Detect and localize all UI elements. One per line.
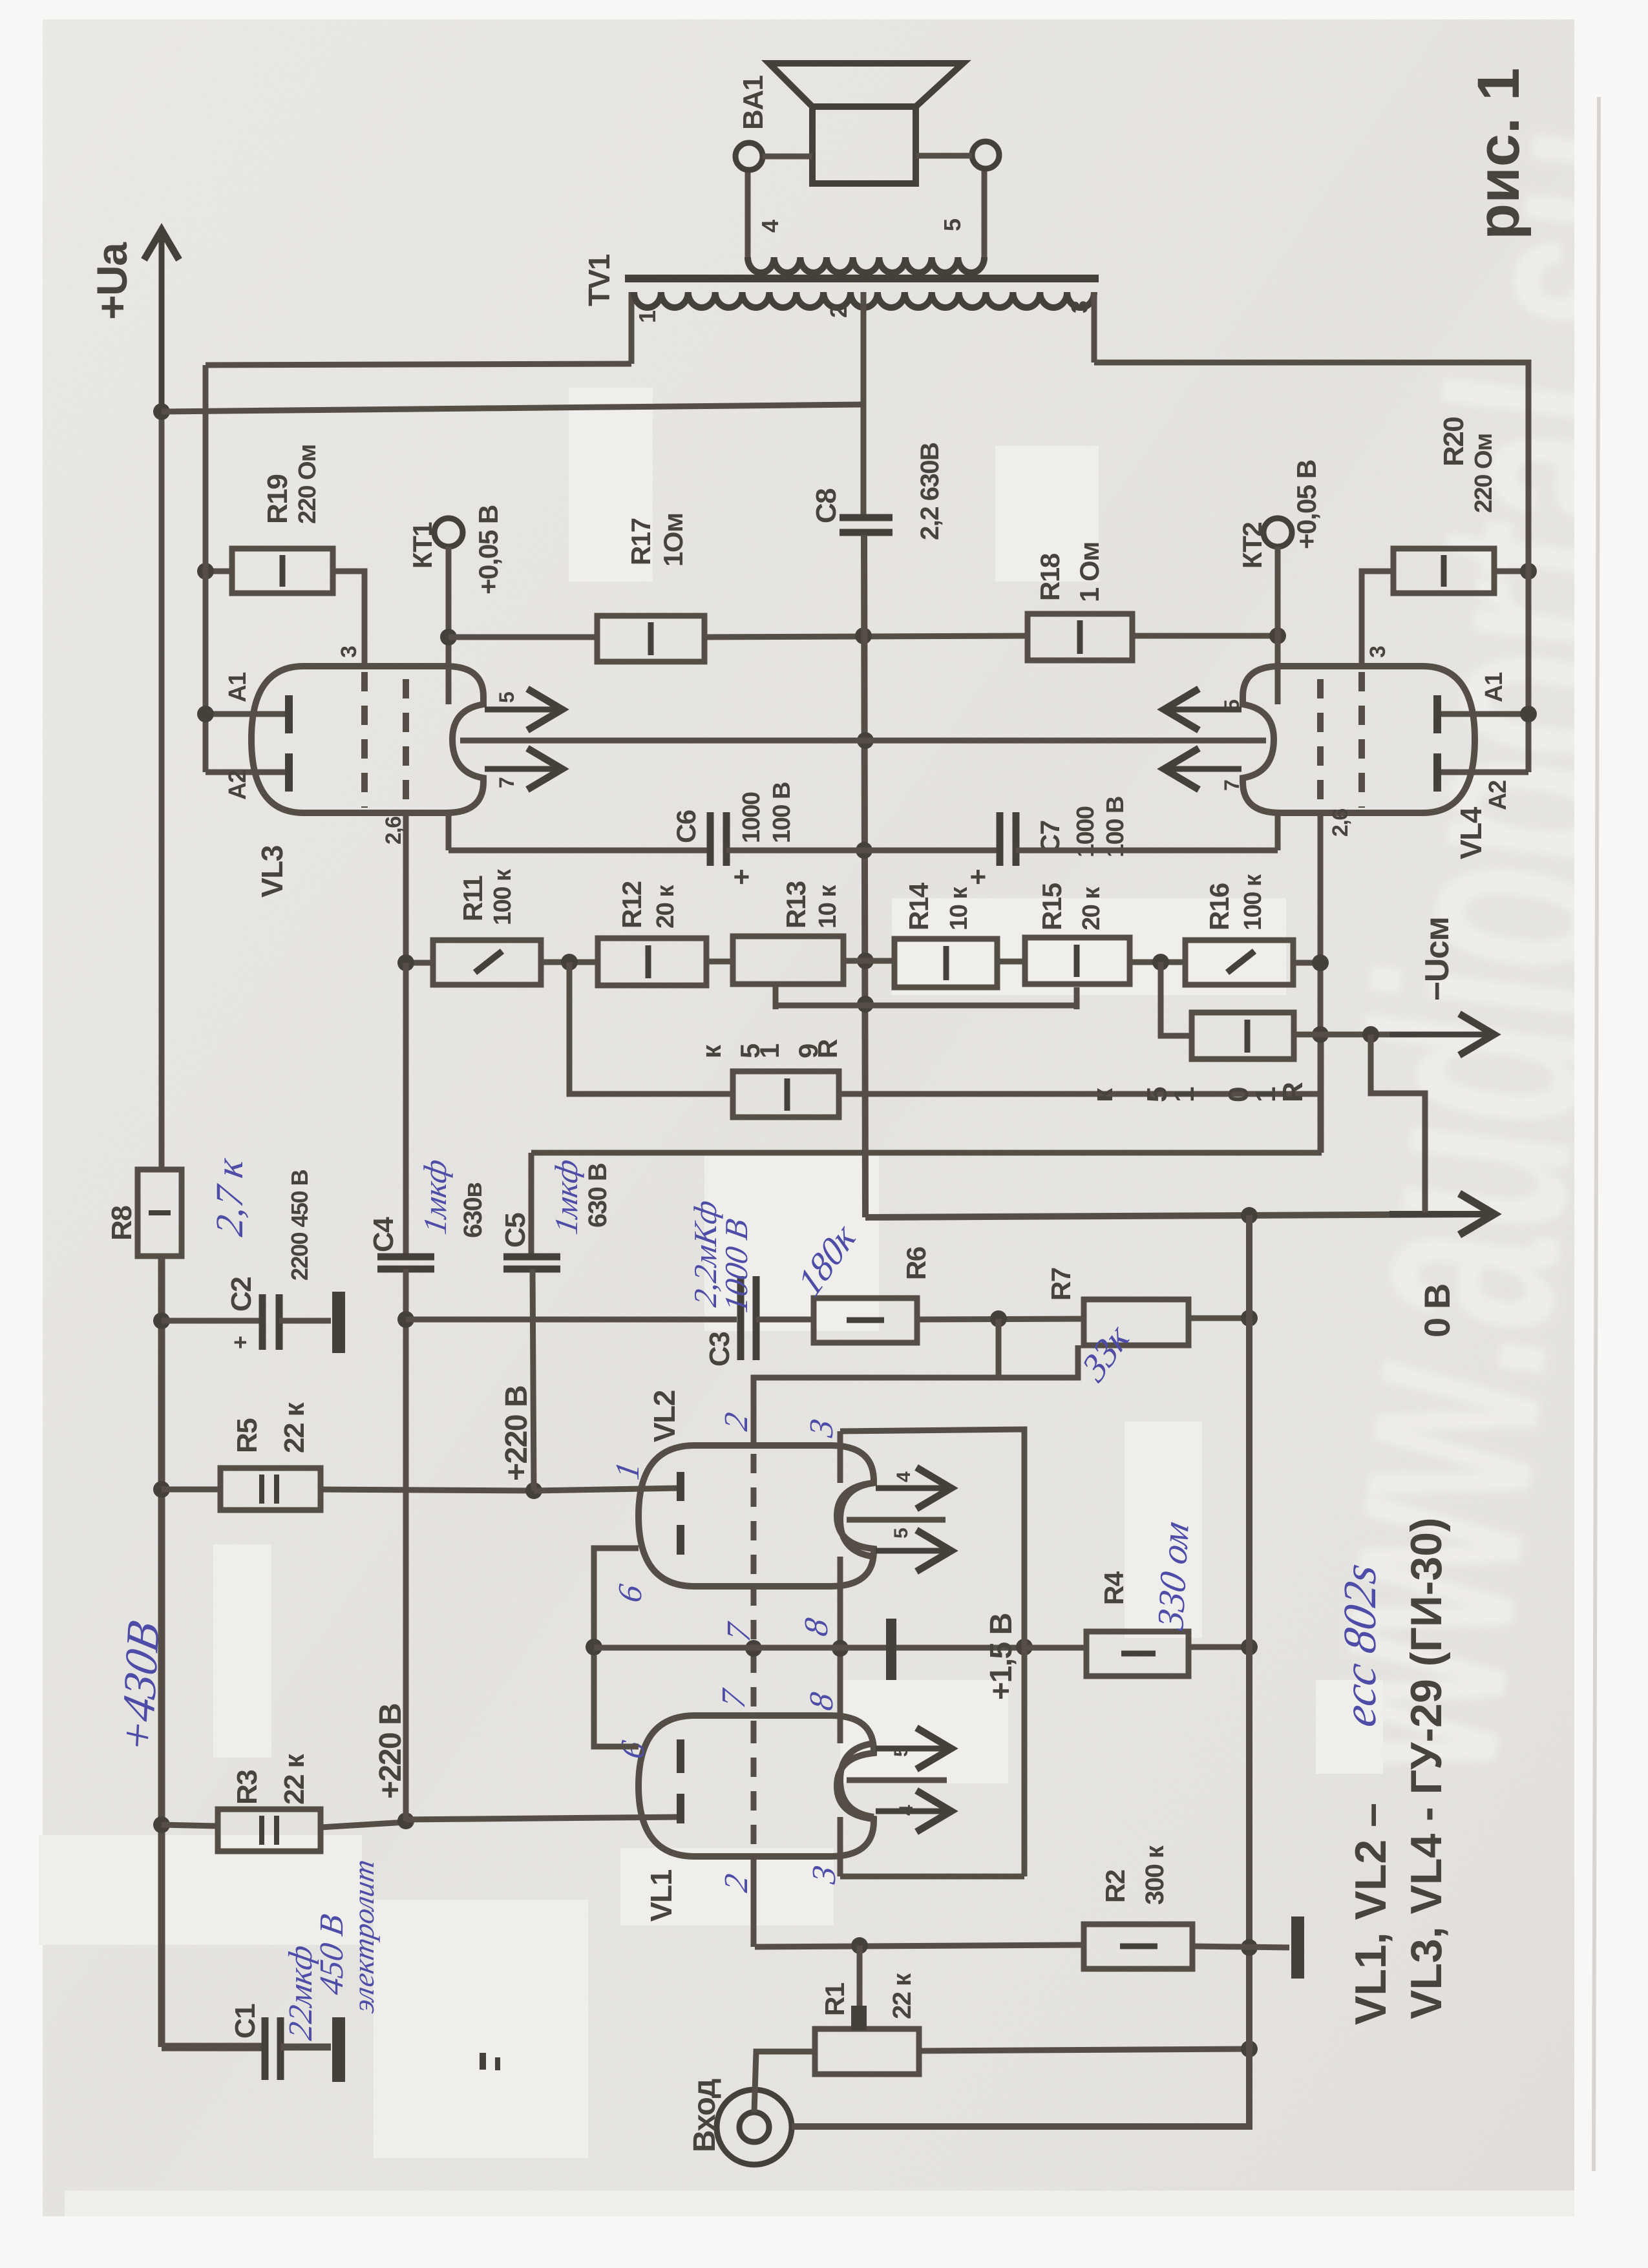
wire R17 to center [704,636,1028,637]
wire grid line [755,1945,1084,1947]
VL3 heater lead lower [485,748,562,790]
TV1 center tap lead [861,292,867,404]
svg-text:2200 450 В: 2200 450 В [286,1170,313,1281]
svg-text:BA1: BA1 [737,75,769,130]
svg-text:450 В: 450 В [313,1911,350,1997]
svg-text:+: + [962,870,994,885]
capacitor C6 [710,812,726,866]
node R16/VL4 g2 riser [1312,1026,1329,1043]
svg-text:C6: C6 [671,810,701,843]
wire VL3 cathode to C6 [449,848,707,854]
resistor R8 [138,1170,182,1256]
wire lower divider line [776,1003,1077,1009]
VL3 screen grid [403,679,409,801]
R14 power mark [944,946,949,980]
wire R4 to ground bus [1188,1644,1249,1650]
node VL1 grid [851,1937,868,1954]
resistor R14 [894,939,997,987]
VL4 heater lead upper [1164,689,1241,730]
svg-text:VL1, VL2 –: VL1, VL2 – [1346,1803,1395,2025]
TV1 secondary winding [748,257,984,273]
svg-text:10 к: 10 к [945,887,973,930]
svg-text:ecc 802s: ecc 802s [1333,1560,1385,1730]
wire VL1 cathode row [840,1874,1024,1880]
node 0V to input ground [1241,1207,1258,1224]
tube VL1 envelope [639,1716,874,1856]
svg-text:R: R [1277,1082,1309,1102]
wire R3 to VL1 anode node [321,1822,406,1827]
-Ucm arrow [1389,1014,1494,1055]
VL2 heater line [847,1517,945,1523]
node cathode line [856,842,872,859]
svg-text:VL3: VL3 [255,846,289,898]
node C4 / R6 tap [397,1311,414,1328]
svg-text:+430В: +430В [111,1616,169,1758]
VL3 anode bus [203,365,209,772]
wire R18 to KT2 [1132,633,1278,639]
R20 power mark [1441,555,1447,587]
svg-text:220 Ом: 220 Ом [294,445,321,524]
wire to R3 [162,1825,218,1826]
paper crease right edge [1594,97,1599,2171]
svg-text:5: 5 [891,1747,912,1757]
R9 power mark [785,1078,790,1111]
svg-text:электролит: электролит [348,1857,381,2015]
svg-text:0: 0 [1223,1087,1254,1102]
resistor R11 [433,940,541,985]
0V arrow [1389,1193,1494,1235]
wire C3 to R6 [756,1317,814,1323]
svg-text:5: 5 [1141,1087,1173,1102]
svg-text:R18: R18 [1035,553,1065,601]
R8 power mark [149,1210,171,1215]
wire C4 to VL1 anode node [403,1269,409,1821]
wire C6 to center [726,848,1002,854]
R17 power mark [648,622,654,655]
svg-text:630в: 630в [459,1182,487,1238]
svg-text:4: 4 [893,1471,914,1482]
node R19 bus [197,563,214,580]
watermark www...su [1220,108,1648,1794]
wire R12 to R13 [706,959,733,965]
svg-text:R14: R14 [903,882,934,930]
svg-text:20 к: 20 к [1078,887,1105,930]
node KT2 screen line [1269,627,1286,644]
speaker BA1 body [812,107,916,184]
svg-text:1: 1 [634,310,660,323]
node R11 left [397,954,414,971]
svg-text:к: к [696,1044,726,1058]
svg-text:A1: A1 [1481,672,1508,702]
R13 bottom stub [773,984,779,1009]
capacitor C5 [503,1257,560,1269]
svg-text:C3: C3 [704,1332,735,1367]
R4 power mark [1121,1651,1156,1657]
cathode junction bar [886,1619,896,1680]
wire R15 to R16 [1130,960,1185,965]
resistor R15 [1025,938,1130,984]
VL1 grid [751,1724,757,1848]
wire R7 to ground bus [1188,1316,1249,1321]
node C5 / VL2 anode [525,1482,542,1499]
wire cathode row [594,1645,1024,1651]
VL1 heater arrow up [876,1728,951,1769]
svg-text:R11: R11 [458,876,488,921]
svg-text:2,2 630В: 2,2 630В [916,443,944,540]
resistor R13 [733,936,843,984]
input connector [717,2090,792,2165]
svg-text:R20: R20 [1438,417,1470,467]
wire center tap to C8 [861,404,867,515]
wire TV1 pin3 to VL4 bus [1094,362,1528,772]
svg-text:R6: R6 [901,1247,931,1280]
svg-text:R15: R15 [1037,883,1067,930]
wire R10 left to divider [1161,962,1192,1036]
VL4 cathode lead down [1275,813,1281,850]
svg-text:5: 5 [939,218,966,231]
svg-text:2: 2 [825,306,852,318]
node cathode column mid [832,1640,849,1657]
TV1 primary winding [634,292,1094,308]
node R6-R7 [990,1310,1007,1327]
BA1 right terminal [972,142,999,169]
resistor R6 [814,1298,917,1343]
resistor R16 [1185,940,1293,985]
VL2 heater arrow up [876,1467,951,1509]
svg-text:R1: R1 [819,1982,850,2016]
wire C5 top to bias line [529,1153,534,1254]
resistor R18 [1028,614,1132,660]
wire C7 to VL4 cathode [1016,848,1278,854]
VL1 cathode bracket [840,1743,874,1817]
VL1 heater arrow dn [876,1790,951,1832]
R10 power mark [1245,1020,1251,1053]
TV1 core [625,275,1099,282]
resistor R9 [733,1071,839,1117]
svg-text:5: 5 [735,1044,765,1058]
VL1 anode bar top [677,1739,684,1773]
capacitor C8 [840,518,893,532]
svg-text:C2: C2 [226,1277,257,1312]
wire +Ua to R8 [159,412,165,1170]
wire g2 node to R11 [406,960,433,966]
resistor R1 [815,2029,919,2074]
wire bias line across [531,1150,1322,1156]
svg-text:R2: R2 [1100,1870,1130,1903]
wire R9 line right [839,1091,1322,1097]
wire VL3 g2 to C4 [403,963,409,1254]
TV1 primary pin3 drop [1092,292,1097,362]
wire to C2 [162,1318,260,1324]
VL3 anode lead A2 [206,770,285,775]
svg-text:630 В: 630 В [584,1163,612,1228]
svg-text:1мкф: 1мкф [548,1157,584,1237]
capacitor C3 [741,1276,756,1360]
node C2 tap [153,1312,170,1329]
svg-text:+: + [726,870,757,885]
wire pin6 loop [594,1548,639,1747]
R9 label and value [696,1039,843,1058]
VL4 control grid [1358,672,1365,808]
resistor R20 [1393,549,1494,593]
svg-text:1: 1 [1168,1087,1200,1102]
test point KT1 [434,518,463,547]
svg-text:R17: R17 [626,518,656,565]
wire R7 wiper to VL2 grid [754,1345,1078,1445]
node KT1 screen line [440,629,457,646]
node R11-R12 / R9 drop [561,954,578,971]
capacitor C7 [1000,812,1016,866]
wire KT2 to tube [1275,547,1281,704]
wire -Ucm branch to 0V [1371,1034,1425,1212]
wire C1 to ground [280,2044,331,2051]
VL2 grid [751,1454,757,1580]
capacitor C1 [265,2017,280,2080]
svg-text:C8: C8 [810,488,842,523]
resistor R3 [218,1809,321,1851]
svg-text:3: 3 [1066,301,1093,313]
resistor R19 [232,549,333,593]
svg-text:1000: 1000 [738,792,765,843]
wire node to VL1 anode [406,1817,681,1820]
svg-text:+220 В: +220 В [374,1704,408,1799]
wire R1 to ground bus [919,2049,1249,2051]
BA1 left terminal [735,143,763,170]
wire C8 to ground corner [864,535,865,1217]
VL3 cathode lead down [446,813,452,850]
svg-text:−Uсм: −Uсм [1419,918,1456,1001]
node R13-R14 line [857,952,874,969]
VL2 cathode lead top [838,1431,843,1483]
R6 power mark [847,1318,884,1323]
R12 power mark [646,945,651,978]
svg-text:+1,5 В: +1,5 В [984,1613,1019,1700]
node pin6 loop mid [586,1639,602,1655]
wire R2 to ground [1192,1946,1289,1948]
resistor R2 [1084,1924,1192,1969]
svg-text:VL1: VL1 [644,1869,678,1922]
svg-text:R8: R8 [106,1206,138,1241]
node +Ua / TV1 feed [153,403,170,420]
wire R6 to R7 [917,1319,1084,1319]
node A1 lead VL4 [1520,706,1537,722]
wire R13 to R14 [843,958,894,964]
svg-text:5: 5 [495,692,518,703]
svg-text:4: 4 [896,1805,917,1816]
svg-text:2,6: 2,6 [1328,809,1353,837]
wire to R5 [162,1487,220,1493]
svg-text:C5: C5 [500,1213,531,1248]
svg-text:+0,05 В: +0,05 В [473,505,503,594]
wire VL2 cathode to R4 node [840,1429,1024,1876]
svg-text:VL2: VL2 [648,1391,681,1442]
svg-text:5: 5 [891,1528,912,1538]
R3 mark a [259,1816,264,1845]
node R15-R16 / R10 drop [1152,954,1169,971]
svg-text:0 В: 0 В [1417,1284,1457,1338]
svg-text:330 ом: 330 ом [1150,1517,1197,1634]
node R20 bus [1520,563,1537,580]
svg-text:100 к: 100 к [1240,874,1267,930]
wire bus to R19 [206,569,232,574]
node C4 bottom / VL1 anode [397,1812,414,1829]
svg-text:R12: R12 [617,881,647,929]
svg-text:1Ом: 1Ом [658,513,688,567]
capacitor C2 [262,1294,279,1350]
wire R11 to R12 [541,960,598,965]
node R1 right [1241,2041,1258,2057]
resistor R10 [1192,1013,1294,1059]
R18 power mark [1077,620,1083,654]
wire bias riser right [1318,1034,1324,1153]
wire grid dash to node [751,1856,757,1947]
test point KT2 [1263,518,1292,547]
tube VL4 envelope [1243,666,1475,813]
R19 power mark [280,555,286,587]
svg-text:VL3, VL4 - ГУ-29 (ГИ-30): VL3, VL4 - ГУ-29 (ГИ-30) [1402,1517,1451,2019]
svg-text:R5: R5 [231,1418,263,1453]
R14 bottom stub [1074,987,1080,1009]
svg-text:+220 В: +220 В [500,1386,534,1481]
svg-text:10 к: 10 к [814,885,841,929]
svg-text:7: 7 [495,777,518,788]
R16 power mark [1227,951,1254,972]
svg-text:R19: R19 [262,475,293,524]
svg-text:22 к: 22 к [279,1753,310,1805]
svg-text:A2: A2 [1484,781,1512,810]
node R4 ground [1241,1639,1258,1655]
svg-text:TV1: TV1 [582,254,616,306]
wire KT1 to tube [446,547,452,704]
svg-text:3: 3 [1366,646,1390,658]
svg-text:КТ2: КТ2 [1237,523,1267,569]
svg-text:R7: R7 [1046,1268,1076,1301]
VL3 anode lead A1 [206,711,285,717]
svg-text:VL4: VL4 [1454,806,1488,859]
+Ua supply arrow [144,230,179,1170]
wire heater center line [460,738,1266,744]
VL4 anode lead A1 [1441,711,1528,717]
svg-text:22 к: 22 к [888,1973,916,2019]
wire R20 to bus [1494,569,1528,574]
node R3 tap [153,1816,170,1833]
resistor R4 [1086,1632,1188,1676]
wire C2 to ground [279,1318,331,1324]
wire C5 to VL2 anode node [533,1269,534,1491]
VL3 screen lead down [403,813,409,963]
wire grid node drop to R1 [857,1946,863,2006]
svg-text:300 к: 300 к [1141,1845,1169,1905]
node grid column mid [745,1640,762,1657]
svg-text:20 к: 20 к [652,885,679,929]
node screen/B+ tap [855,627,872,644]
svg-text:Вход: Вход [688,2079,722,2152]
VL4 anode lead A2 [1441,770,1528,775]
wire BA1 right [916,153,972,159]
VL3 control grid [361,672,368,808]
svg-text:C1: C1 [229,2004,261,2039]
VL2 anode bar bottom [677,1525,684,1555]
TV1 secondary right lead [982,169,988,257]
wire R6 tap down [996,1319,1002,1378]
VL2 anode bar top [677,1472,684,1501]
wire node to VL2 anode [534,1488,681,1491]
wire R20 to VL4 grid [1362,571,1393,666]
node lower divider line [857,996,874,1013]
VL1 heater line [847,1778,947,1783]
node R5 tap [153,1481,170,1498]
svg-text:R16: R16 [1204,883,1234,930]
svg-text:A1: A1 [224,672,251,702]
svg-text:C4: C4 [368,1217,399,1252]
svg-text:22 к: 22 к [279,1402,310,1453]
VL4 anode bar 2 [1433,753,1441,792]
VL1 anode bar bottom [677,1794,684,1823]
wire input shell to ground bus [792,1215,1249,2126]
TV1 secondary left lead [745,170,751,257]
resistor R17 [597,616,704,662]
svg-text:7: 7 [1220,780,1243,791]
resistor R5 [220,1468,321,1510]
svg-text:+Ua: +Ua [88,242,136,320]
ground bar at C1 [332,2017,345,2082]
VL3 anode bar 1 [285,695,293,733]
svg-text:рис. 1: рис. 1 [1466,68,1532,240]
VL1 cathode lead bottom [838,1817,843,1876]
stray mark [480,2053,486,2070]
VL4 anode bar 1 [1433,695,1441,733]
svg-text:+0,05 В: +0,05 В [1291,460,1322,549]
tube VL2 envelope [639,1445,874,1586]
svg-text:R3: R3 [231,1770,263,1805]
svg-text:220 Ом: 220 Ом [1470,434,1497,513]
node R7 ground [1241,1310,1258,1327]
node A1 lead VL3 [197,706,214,722]
wire 0V bus [865,1214,1493,1217]
VL4 screen lead down [1318,813,1324,1153]
wire screen line left [449,635,597,640]
svg-text:к: к [1087,1087,1119,1102]
svg-text:100 В: 100 В [768,782,796,843]
R5 mark a [259,1475,264,1504]
node -Ucm branch [1362,1026,1379,1043]
node cathode row right [1016,1639,1033,1655]
R3 mark b [274,1816,279,1845]
wire R5 to VL2 anode node [321,1489,534,1491]
wire R9 riser [569,962,733,1094]
svg-text:1000 В: 1000 В [718,1216,754,1315]
wire BA1 left [763,154,812,160]
R15 power mark [1074,945,1080,977]
svg-text:4: 4 [757,220,783,233]
wire row to R4 [1024,1645,1086,1651]
tube VL3 envelope [251,666,483,813]
VL2 cathode bracket [840,1483,874,1557]
grid link VL2-VL1 [751,1586,757,1724]
VL3 anode bar 2 [285,753,293,792]
wire VL3 anode bus to TV1 pin1 [206,364,631,365]
resistor R12 [598,938,706,985]
cathode link column [838,1557,843,1743]
ground bar at R2 [1291,1916,1304,1979]
node R2 ground [1241,1939,1258,1956]
node R16 right [1312,954,1329,971]
wire corner to C1 [162,2043,262,2052]
VL4 heater lead lower [1164,748,1241,790]
R11 power mark [475,951,502,972]
R5 mark b [274,1475,279,1504]
VL4 screen grid [1317,679,1324,801]
